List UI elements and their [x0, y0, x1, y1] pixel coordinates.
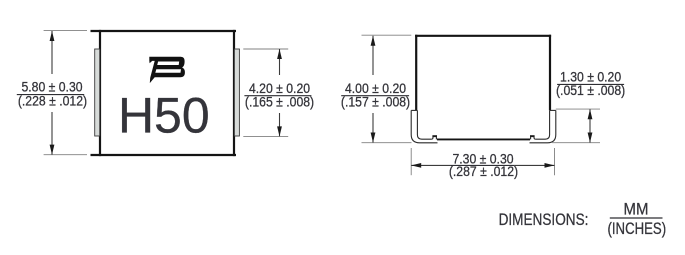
fraction bar 7.30: [450, 164, 515, 166]
label DIMENSIONS:: [499, 211, 589, 230]
svg-text:H50: H50: [118, 88, 210, 144]
arrow down 1.30: [588, 133, 593, 143]
arrow up 4.20: [277, 49, 282, 59]
arrow left 7.30: [411, 163, 421, 168]
package top view body outline: [91, 30, 237, 156]
extension line left vertical (7.30): [410, 148, 412, 175]
extension line top-right (4.20): [243, 48, 288, 50]
svg-text:DIMENSIONS:: DIMENSIONS:: [499, 211, 589, 230]
extension line bottom-right (4.20): [243, 135, 288, 137]
left lead (J-bend): [411, 110, 437, 142]
svg-text:(INCHES): (INCHES): [607, 219, 666, 238]
dimension text 5.80: [18, 79, 87, 109]
units fraction bar: [610, 217, 663, 219]
arrow right 7.30: [545, 163, 555, 168]
extension line right vertical (7.30): [554, 148, 556, 175]
svg-text:(.287 ± .012): (.287 ± .012): [449, 164, 518, 180]
package side view body: [415, 35, 551, 111]
right lead hook cap: [530, 135, 535, 137]
fraction bar 5.80: [17, 94, 84, 96]
marking text H50: [118, 88, 210, 144]
extension line top lead (1.30): [556, 108, 600, 110]
units MM: [624, 201, 649, 219]
svg-text:MM: MM: [624, 201, 649, 219]
fraction bar 4.20: [244, 95, 311, 97]
dimension text 4.00: [341, 80, 410, 109]
fraction bar 1.30: [557, 83, 624, 85]
side view body bottom edge: [437, 138, 530, 140]
extension line bottom-left (5.80): [44, 154, 87, 156]
left terminal tab: [95, 49, 100, 136]
arrow up 5.80: [50, 31, 55, 41]
arrow up 4.00: [371, 36, 376, 46]
dimension line 7.30 right segment: [515, 164, 555, 166]
dimension line 4.20 upper segment: [279, 49, 281, 75]
dimension text 4.20: [245, 80, 314, 109]
extension line bottom lead (1.30): [552, 142, 600, 144]
dimension text 1.30: [556, 69, 625, 98]
dimension line 1.30: [589, 109, 591, 142]
dimension line 4.00 lower segment: [372, 113, 374, 143]
Bourns logo: [149, 57, 185, 83]
right lead (J-bend): [530, 110, 556, 142]
arrow up 1.30: [588, 109, 593, 119]
extension line top-left (5.80): [44, 29, 87, 31]
dimension line 4.20 lower segment: [279, 113, 281, 136]
right terminal tab: [234, 49, 239, 136]
dimension line 5.80 lower segment: [51, 112, 53, 155]
fraction bar 4.00: [341, 95, 409, 97]
arrow down 4.00: [371, 133, 376, 143]
dimension line 4.00 upper segment: [372, 36, 374, 75]
dimension line 7.30 left segment with fraction bar: [411, 164, 450, 166]
arrow down 4.20: [277, 126, 282, 136]
dimension text 7.30: [449, 151, 518, 180]
extension line bottom-left side view (4.00): [362, 142, 412, 144]
left lead hook cap: [432, 135, 437, 137]
units (INCHES): [607, 219, 666, 238]
dimension line 5.80 upper segment: [51, 31, 53, 74]
extension line top-left side view (4.00): [362, 34, 412, 36]
arrow down 5.80: [50, 145, 55, 155]
